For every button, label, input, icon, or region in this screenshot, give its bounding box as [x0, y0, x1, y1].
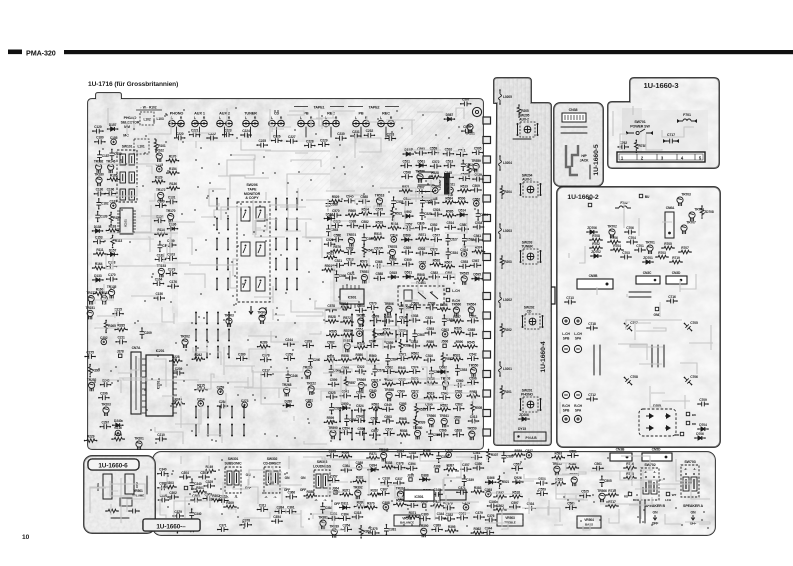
svg-text:C701: C701: [636, 244, 644, 248]
svg-text:C578: C578: [327, 304, 335, 308]
transistor TR535: [554, 466, 560, 475]
svg-text:TUNER: TUNER: [521, 245, 533, 249]
jumper wire: [286, 239, 288, 250]
jumper RD: [686, 421, 689, 424]
speaker terminal R-CH SPA plus: [574, 415, 581, 422]
svg-text:C261: C261: [305, 399, 313, 403]
capacitor C357: [461, 467, 471, 472]
RCA jack CD R: [278, 120, 285, 127]
svg-text:R519: R519: [427, 392, 435, 396]
transistor TR559: [473, 163, 479, 172]
resistor R558: [339, 358, 351, 362]
transistor TR324: [397, 491, 403, 500]
resistor R501: [322, 268, 334, 272]
RCA jack PB R: [308, 120, 315, 127]
svg-text:R702: R702: [592, 242, 600, 246]
svg-text:C582: C582: [361, 220, 369, 224]
capacitor C311: [320, 503, 325, 513]
capacitor C504: [355, 394, 365, 399]
connector CN3D: [666, 276, 687, 284]
svg-text:RCH: RCH: [633, 498, 639, 502]
capacitor C340: [488, 504, 498, 509]
transistor TR590: [330, 430, 336, 439]
capacitor C532: [369, 420, 379, 425]
svg-text:R717: R717: [608, 500, 616, 504]
capacitor C540: [370, 392, 376, 398]
capacitor C371: [218, 527, 228, 532]
capacitor C303: [191, 498, 201, 503]
resistor R718: [624, 476, 636, 480]
svg-text:-2-: -2-: [264, 495, 267, 499]
capacitor C514: [391, 237, 397, 243]
capacitor C381: [384, 525, 389, 535]
capacitor C182: [155, 257, 165, 262]
transistor TR518: [376, 198, 382, 207]
svg-text:C231: C231: [352, 130, 360, 134]
capacitor C542: [468, 356, 478, 361]
wire: [639, 501, 641, 523]
capacitor C275: [85, 354, 95, 359]
capacitor C568: [429, 201, 439, 206]
svg-text:LOUDNESS: LOUDNESS: [313, 464, 332, 468]
resistor R599: [324, 421, 336, 425]
svg-text:C507: C507: [417, 186, 425, 190]
capacitor C530: [397, 381, 407, 386]
capacitor C543: [440, 395, 450, 400]
capacitor C153: [94, 239, 104, 244]
svg-text:R301: R301: [196, 486, 204, 490]
capacitor C209: [140, 328, 145, 338]
svg-text:C522: C522: [357, 365, 365, 369]
capacitor C592: [129, 509, 139, 514]
svg-text:C221: C221: [191, 129, 199, 133]
RCA jack PB L: [298, 120, 305, 127]
capacitor C361: [457, 515, 467, 520]
relay RL601: [398, 286, 444, 305]
diode ZD701: [643, 260, 653, 264]
capacitor C570: [331, 213, 341, 218]
transistor TR135: [109, 289, 115, 298]
resistor R573: [358, 264, 370, 268]
svg-text:R529: R529: [332, 195, 340, 199]
svg-text:C521: C521: [347, 272, 355, 276]
arrow marks below SW206: [249, 306, 253, 314]
jumper wire: [362, 331, 364, 342]
svg-text:C571: C571: [399, 353, 407, 357]
svg-text:J550: J550: [454, 416, 461, 420]
svg-text:R201: R201: [504, 390, 512, 394]
transistor TR172: [158, 192, 164, 201]
jumper wire: [216, 259, 218, 270]
wire: [629, 296, 651, 298]
capacitor C565: [566, 505, 576, 510]
resistor R229: [112, 437, 124, 441]
svg-text:TR192: TR192: [94, 160, 104, 164]
svg-text:C380: C380: [421, 513, 429, 517]
resistor R557: [344, 377, 348, 389]
svg-text:C187: C187: [102, 154, 110, 158]
transistor TR146: [108, 164, 114, 173]
svg-text:R590: R590: [456, 340, 464, 344]
capacitor C527: [446, 235, 451, 245]
pot VR502 BALANCE: [394, 515, 420, 526]
svg-text:C378: C378: [396, 462, 404, 466]
capacitor C577: [373, 250, 383, 255]
svg-text:C311: C311: [259, 503, 267, 507]
capacitor C248: [101, 382, 111, 387]
svg-text:R593: R593: [555, 452, 563, 456]
jumper wire: [286, 219, 288, 230]
diode D388: [420, 477, 430, 481]
transistor TR578: [389, 249, 395, 258]
svg-text:CN6A: CN6A: [666, 206, 675, 210]
svg-text:DY15: DY15: [518, 427, 526, 431]
diode bridge D705: [639, 409, 676, 436]
diode D526: [513, 480, 523, 484]
svg-text:C573: C573: [430, 247, 438, 251]
capacitor C518: [453, 432, 463, 437]
svg-text:C534: C534: [450, 251, 458, 255]
svg-text:SPB: SPB: [563, 336, 570, 340]
capacitor C371: [457, 490, 467, 495]
svg-text:TAPE2: TAPE2: [369, 105, 380, 109]
svg-text:R543: R543: [398, 366, 406, 370]
svg-text:ON: ON: [301, 476, 306, 480]
svg-text:C713: C713: [566, 296, 574, 300]
svg-text:R707: R707: [681, 246, 689, 250]
capacitor C580: [458, 227, 468, 232]
capacitor C598: [427, 305, 437, 310]
capacitor C273: [242, 402, 248, 408]
svg-text:J278: J278: [117, 350, 124, 354]
wire: [175, 124, 177, 138]
resistor R545: [465, 345, 477, 349]
resistor R229: [85, 439, 97, 443]
jumper LCH: [184, 486, 187, 489]
capacitor C329: [204, 484, 214, 489]
svg-text:D509: D509: [403, 234, 411, 238]
resistor R335: [431, 504, 443, 508]
resistor R160: [94, 292, 106, 296]
capacitor C217: [261, 372, 271, 377]
svg-text:R528: R528: [328, 315, 336, 319]
svg-text:TUNER: TUNER: [244, 111, 257, 115]
power supply board 1U-1660-2 outline: [557, 187, 720, 447]
svg-text:R136: R136: [169, 182, 177, 186]
wire: [111, 517, 129, 519]
diode D366: [486, 480, 496, 484]
svg-text:L103: L103: [156, 117, 163, 121]
svg-text:R370: R370: [367, 502, 375, 506]
svg-text:C361: C361: [458, 512, 466, 516]
diode D582: [438, 370, 448, 374]
resistor R521: [498, 476, 502, 488]
svg-text:C716: C716: [668, 295, 676, 299]
capacitor C571: [398, 356, 408, 361]
svg-text:C545: C545: [444, 171, 452, 175]
capacitor C211: [116, 339, 126, 344]
resistor R362: [471, 531, 483, 535]
jumper L-CH mark: [446, 288, 449, 291]
capacitor C549: [383, 407, 393, 412]
wire traces: [90, 478, 145, 523]
capacitor C301: [199, 475, 209, 480]
transistor TR560: [428, 418, 434, 427]
svg-text:TR277: TR277: [86, 291, 96, 295]
svg-text:TR210: TR210: [303, 366, 313, 370]
resistor R506: [456, 201, 468, 205]
jumper wire: [231, 407, 233, 418]
svg-text:C296: C296: [100, 392, 108, 396]
capacitor C598: [398, 319, 408, 324]
diode D240: [113, 423, 123, 427]
svg-text:C232: C232: [366, 129, 374, 133]
jumper wire: [275, 219, 277, 230]
label 1U-1660-6 boxed: [88, 459, 139, 470]
svg-text:TR578: TR578: [388, 245, 398, 249]
capacitor C304: [180, 475, 190, 480]
headphone jack J701: [566, 145, 578, 175]
resistor R371: [340, 493, 352, 497]
resistor R569: [346, 213, 358, 217]
svg-text:C525: C525: [581, 490, 589, 494]
svg-text:TR541: TR541: [439, 414, 449, 418]
jumper wire: [216, 239, 218, 250]
svg-text:OFF: OFF: [334, 502, 340, 506]
transistor TR551: [571, 477, 577, 486]
capacitor C367: [379, 491, 389, 496]
RCA jack REC L: [378, 120, 385, 127]
capacitor C326: [187, 528, 197, 533]
jumper wire: [206, 330, 208, 341]
svg-text:1U-1716 (für Grossbritannien): 1U-1716 (für Grossbritannien): [88, 81, 178, 88]
resistor R202: [500, 324, 504, 336]
svg-text:R579: R579: [344, 329, 352, 333]
resistor R310: [368, 493, 380, 497]
capacitor C513: [469, 419, 479, 424]
svg-text:C180: C180: [96, 136, 104, 140]
capacitor C522: [356, 369, 366, 374]
resistor R332: [354, 480, 366, 484]
capacitor C196: [105, 191, 115, 196]
power board 1U-1660-3 outline: [608, 78, 719, 168]
resistor R129: [153, 180, 165, 184]
svg-text:L-CH: L-CH: [574, 332, 582, 336]
svg-text:J364: J364: [332, 486, 339, 490]
speaker terminal R-CH SPB minus: [562, 391, 569, 398]
svg-text:R545: R545: [467, 341, 475, 345]
svg-text:C169: C169: [157, 199, 165, 203]
resistor R539: [512, 453, 524, 457]
wire: [249, 124, 251, 138]
capacitor C231: [351, 134, 361, 139]
resistor R702: [590, 246, 602, 250]
svg-text:& COPY: & COPY: [245, 196, 259, 200]
svg-text:C393: C393: [485, 488, 493, 492]
resistor R592: [430, 263, 442, 267]
svg-text:C176: C176: [169, 280, 177, 284]
jumper wire: [296, 219, 298, 230]
capacitor C592: [332, 237, 342, 242]
svg-text:C514: C514: [390, 233, 398, 237]
jumper wire: [217, 313, 219, 324]
capacitor C577: [370, 433, 380, 438]
capacitor C557: [512, 466, 522, 471]
svg-text:C275: C275: [86, 350, 94, 354]
jumper wire: [243, 425, 245, 436]
capacitor C354: [341, 527, 351, 532]
capacitor C525: [327, 395, 337, 400]
diode D540: [403, 152, 413, 156]
wire traces: [613, 106, 694, 150]
resistor R129: [109, 212, 113, 224]
jumper wire: [207, 425, 209, 436]
capacitor C713: [565, 300, 575, 305]
transistor TR580: [415, 430, 421, 439]
capacitor C173: [167, 271, 177, 276]
resistor R703: [656, 255, 668, 259]
svg-text:C529: C529: [404, 246, 412, 250]
capacitor C708: [623, 376, 633, 386]
resistor R114: [155, 233, 167, 237]
capacitor C318: [407, 455, 417, 460]
svg-text:TR146: TR146: [106, 160, 116, 164]
jumper wire: [217, 347, 219, 358]
svg-text:R539: R539: [418, 421, 426, 425]
transistor TR222: [308, 386, 314, 395]
svg-text:C554: C554: [357, 427, 365, 431]
capacitor C164: [154, 281, 164, 286]
svg-text:R556: R556: [440, 303, 448, 307]
diagonal copper hatch region: [392, 104, 481, 182]
jumper wire: [363, 411, 365, 422]
jumper wire: [207, 407, 209, 418]
svg-text:C540: C540: [369, 389, 377, 393]
capacitor C521: [457, 152, 467, 157]
svg-text:C596: C596: [469, 377, 477, 381]
svg-text:R114: R114: [157, 228, 165, 232]
jumper wire: [296, 239, 298, 250]
connector P.N.A.B box: [514, 432, 546, 441]
capacitor C378: [241, 522, 251, 527]
svg-text:1U-1660-6: 1U-1660-6: [98, 463, 128, 470]
capacitor C538: [347, 223, 357, 228]
capacitor C559: [428, 150, 438, 155]
svg-text:C252: C252: [100, 336, 108, 340]
resistor R285: [115, 328, 127, 332]
svg-text:ZD708: ZD708: [704, 210, 714, 214]
svg-text:TR535: TR535: [459, 272, 469, 276]
wire traces: [160, 456, 710, 530]
svg-text:C524: C524: [356, 404, 364, 408]
capacitor C331: [329, 516, 339, 521]
resistor R556: [438, 308, 450, 312]
svg-text:C170: C170: [108, 273, 116, 277]
svg-text:CN2: CN2: [135, 482, 139, 488]
svg-text:C518: C518: [455, 429, 463, 433]
capacitor C210: [156, 437, 166, 442]
resistor R185: [108, 178, 120, 182]
svg-text:1U-1660-5: 1U-1660-5: [593, 144, 600, 176]
svg-text:TR201: TR201: [134, 437, 144, 441]
capacitor C384: [275, 509, 285, 514]
svg-text:C326: C326: [445, 449, 453, 453]
svg-text:MC: MC: [123, 134, 129, 138]
svg-text:ON: ON: [246, 473, 251, 477]
svg-text:L0203: L0203: [503, 229, 512, 233]
capacitor C309: [436, 452, 441, 462]
capacitor C599: [362, 234, 367, 244]
capacitor C568: [374, 264, 384, 269]
svg-text:C139: C139: [100, 214, 108, 218]
svg-text:IC101: IC101: [124, 219, 128, 227]
capacitor C379: [173, 514, 183, 519]
svg-text:C563: C563: [417, 333, 425, 337]
svg-text:C712: C712: [588, 393, 596, 397]
svg-text:C138: C138: [108, 260, 116, 264]
capacitor C568: [388, 261, 398, 266]
capacitor C593: [416, 151, 426, 156]
svg-text:C560: C560: [456, 379, 464, 383]
svg-text:C577: C577: [385, 427, 393, 431]
capacitor C230: [336, 136, 346, 141]
resistor R579: [341, 333, 353, 337]
svg-text:C588: C588: [375, 272, 383, 276]
svg-text:R505: R505: [475, 406, 483, 410]
transistor TR703: [677, 197, 683, 206]
connector CN7A: [131, 352, 141, 414]
svg-text:C553: C553: [426, 327, 434, 331]
selector strip board 1U-1660-4 outline: [494, 78, 551, 445]
resistor R371: [406, 516, 418, 520]
jumper wire: [339, 429, 341, 440]
transistor TR390: [421, 528, 427, 537]
speaker terminal L-CH SPB plus: [562, 317, 569, 324]
svg-text:TAPE: TAPE: [248, 187, 258, 191]
via nodes: [165, 458, 708, 530]
capacitor C221: [190, 132, 200, 137]
svg-text:C502: C502: [465, 163, 473, 167]
jumper J398: [423, 504, 426, 507]
capacitor C297: [100, 424, 110, 429]
jumper wire: [219, 407, 221, 418]
capacitor C340: [190, 479, 195, 489]
svg-text:C504: C504: [460, 248, 468, 252]
resistor R585: [467, 394, 479, 398]
capacitor C582: [360, 224, 370, 229]
capacitor C565: [428, 430, 433, 440]
svg-text:C503: C503: [441, 328, 449, 332]
RCA jack AUX 1 R: [201, 120, 208, 127]
svg-text:C367: C367: [380, 487, 388, 491]
capacitor C541: [472, 238, 482, 243]
svg-text:C524: C524: [433, 208, 441, 212]
svg-text:D531: D531: [404, 271, 412, 275]
svg-text:C223: C223: [224, 129, 232, 133]
svg-text:R718: R718: [626, 472, 634, 476]
speaker terminal L-CH SPB minus: [562, 345, 569, 352]
capacitor C577: [384, 431, 394, 436]
diode D280: [283, 404, 293, 408]
capacitor C562: [454, 406, 464, 411]
wire traces: [560, 202, 713, 413]
resistor R303: [164, 485, 176, 489]
capacitor C337: [394, 481, 404, 486]
svg-text:TR202: TR202: [180, 335, 190, 339]
svg-text:C521: C521: [425, 316, 433, 320]
inductor L0202: [499, 293, 502, 307]
wire: [198, 124, 200, 138]
